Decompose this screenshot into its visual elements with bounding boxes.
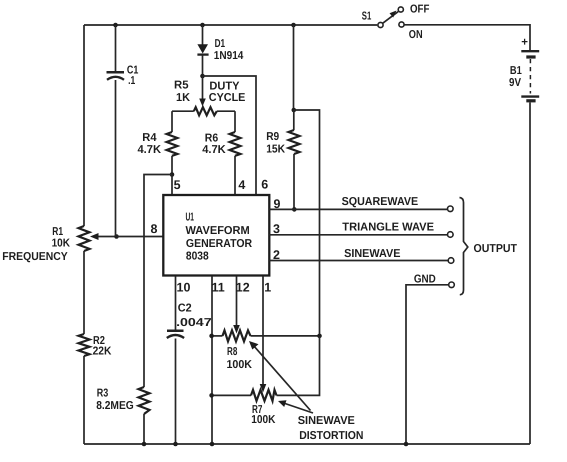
node pin5/R4/R3 junction (170, 172, 175, 177)
svg-text:R9: R9 (266, 131, 279, 143)
svg-text:4.7K: 4.7K (202, 144, 226, 156)
potentiometer R5 (172, 107, 235, 115)
pin 5 label (174, 178, 181, 192)
svg-text:8.2MEG: 8.2MEG (96, 400, 134, 412)
svg-text:5: 5 (174, 178, 181, 192)
svg-text:9: 9 (274, 197, 281, 211)
squarewave terminal (448, 206, 454, 212)
svg-text:CYCLE: CYCLE (209, 92, 246, 104)
wire right rail battery to bottom right corner (529, 103, 531, 445)
svg-text:SINEWAVE: SINEWAVE (344, 248, 401, 260)
svg-text:2: 2 (273, 248, 280, 262)
resistor R3 (96, 387, 149, 444)
potentiometer R5 wiper arrow (174, 76, 246, 107)
pin 2 label (273, 248, 280, 262)
svg-text:R8: R8 (227, 346, 238, 358)
svg-text:R1: R1 (52, 226, 63, 238)
svg-text:1K: 1K (176, 92, 191, 104)
svg-text:GND: GND (414, 273, 436, 285)
svg-text:+: + (521, 37, 528, 49)
svg-text:6: 6 (261, 178, 268, 192)
triangle wave label (342, 222, 434, 234)
potentiometer R8 (212, 330, 320, 370)
node R9 top junction (292, 108, 297, 113)
wire top rail (84, 24, 377, 26)
svg-text:4.7K: 4.7K (138, 144, 162, 156)
sinewave label (344, 248, 401, 260)
svg-text:TRIANGLE WAVE: TRIANGLE WAVE (342, 222, 434, 234)
op IC U1 8038 box (163, 195, 269, 276)
potentiometer R1 (2, 226, 116, 263)
wire R9 branch from top rail (293, 25, 295, 110)
svg-text:D1: D1 (215, 38, 226, 50)
svg-text:OFF: OFF (410, 4, 429, 16)
gnd label (414, 273, 436, 285)
svg-text:B1: B1 (510, 65, 522, 77)
svg-text:R6: R6 (205, 133, 218, 145)
capacitor C1 (107, 25, 139, 237)
resistor R4 (138, 111, 178, 174)
potentiometer R8 wiper arrow pin 12 (233, 276, 250, 334)
wire gnd to bottom rail (406, 285, 448, 444)
wire pin 2 sinewave output (269, 260, 448, 262)
node pin9/R9 junction (292, 207, 297, 212)
node C2 bottom junction (173, 442, 178, 447)
node C1/pin8 junction (114, 234, 119, 239)
svg-text:C2: C2 (178, 303, 192, 315)
wire left rail bottom segment (83, 356, 85, 444)
svg-text:100K: 100K (227, 359, 253, 371)
svg-text:9V: 9V (509, 77, 521, 89)
sinewave terminal (448, 258, 454, 264)
potentiometer R7 wiper arrow pin 1 (260, 276, 272, 393)
squarewave label (342, 196, 419, 208)
svg-text:12: 12 (236, 281, 250, 295)
triangle terminal (448, 232, 454, 238)
svg-text:1: 1 (264, 281, 271, 295)
svg-text:.1: .1 (128, 75, 136, 87)
wire pin 3 triangle output (269, 234, 447, 236)
svg-text:FREQUENCY: FREQUENCY (2, 251, 68, 263)
resistor R9 (266, 110, 299, 209)
resistor R6 (202, 111, 240, 195)
svg-text:22K: 22K (93, 346, 112, 358)
pin 9 label (274, 197, 281, 211)
wire S1 to battery B1 (405, 25, 531, 50)
svg-text:DISTORTION: DISTORTION (299, 430, 363, 442)
node R9 branch top junction (291, 23, 296, 28)
resistor R2 (79, 334, 113, 358)
svg-text:OUTPUT: OUTPUT (474, 243, 518, 255)
sinewave distortion callout arrows (249, 341, 313, 413)
capacitor C2 (167, 303, 212, 445)
svg-text:8: 8 (151, 222, 158, 236)
node gnd bottom junction (404, 442, 409, 447)
node pin11 bottom junction (210, 442, 215, 447)
svg-text:R5: R5 (174, 79, 189, 91)
svg-text:R4: R4 (142, 132, 157, 144)
pin 4 label (238, 178, 245, 192)
potentiometer R7 (212, 336, 320, 426)
svg-text:3: 3 (273, 222, 280, 236)
svg-text:S1: S1 (362, 11, 372, 23)
node R3 bottom junction (142, 442, 147, 447)
node D1 top junction (200, 23, 205, 28)
node R8 left junction (209, 334, 214, 339)
wire left rail mid segment (83, 251, 85, 334)
svg-text:WAVEFORM: WAVEFORM (186, 225, 250, 237)
wire pin 10 / C2 top (175, 276, 177, 330)
wire left rail top segment (83, 25, 85, 226)
switch S1 (362, 4, 430, 41)
svg-text:R3: R3 (97, 388, 109, 400)
sinewave distortion label (298, 415, 364, 442)
gnd terminal (449, 282, 455, 288)
wire pin 9 squarewave output (269, 208, 447, 210)
svg-text:GENERATOR: GENERATOR (186, 238, 253, 250)
pin 6 label (261, 178, 268, 192)
svg-text:10K: 10K (52, 237, 71, 249)
svg-text:1N914: 1N914 (214, 50, 244, 62)
node C1 top junction (113, 23, 118, 28)
wire pin 8 to IC (117, 236, 164, 238)
wire pin 5 (171, 175, 173, 196)
svg-text:4: 4 (238, 178, 245, 192)
pin 3 label (273, 222, 280, 236)
node D1 bottom junction (200, 74, 205, 79)
svg-text:ON: ON (409, 29, 423, 41)
wire pin 11 (211, 276, 213, 444)
wire R9 junction to right vertical (294, 110, 320, 336)
pin 10 label (177, 281, 191, 295)
svg-text:15K: 15K (266, 144, 286, 156)
svg-text:U1: U1 (186, 212, 195, 224)
svg-text:DUTY: DUTY (209, 80, 239, 92)
output brace (460, 198, 468, 295)
svg-text:100K: 100K (251, 414, 276, 426)
node R7 left junction (209, 393, 214, 398)
svg-text:10: 10 (177, 281, 191, 295)
diode D1 (197, 25, 244, 76)
wire R3 branch from pin5 junction (144, 175, 172, 388)
svg-text:SQUAREWAVE: SQUAREWAVE (342, 196, 419, 208)
node R8 right junction (317, 334, 322, 339)
output label (474, 243, 518, 255)
wire D1 junction to pin 6 (203, 76, 257, 195)
svg-text:SINEWAVE: SINEWAVE (298, 415, 356, 427)
svg-text:11: 11 (212, 281, 225, 295)
svg-text:.0047: .0047 (176, 317, 212, 329)
pin 8 label (151, 222, 158, 236)
svg-text:8038: 8038 (186, 251, 209, 263)
pin 11 label (212, 281, 225, 295)
wire bottom rail (84, 443, 530, 445)
battery B1 (509, 37, 539, 101)
